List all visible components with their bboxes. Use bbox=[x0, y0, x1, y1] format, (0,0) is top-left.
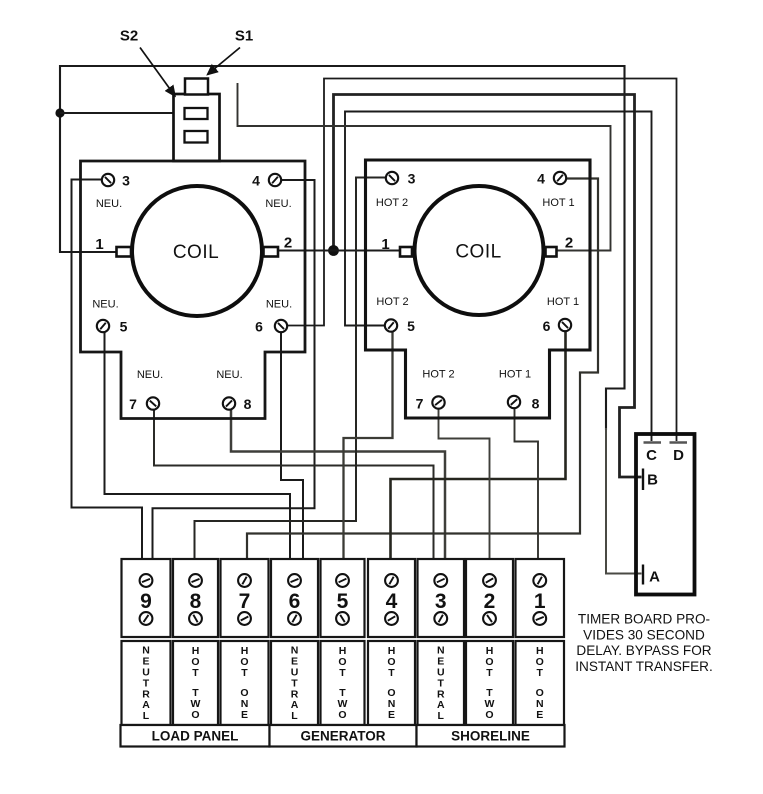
svg-text:L: L bbox=[438, 710, 445, 722]
svg-text:T: T bbox=[241, 667, 248, 679]
screw terminal block 6 bottom bbox=[288, 612, 301, 625]
label cell NEUTRAL (3) bbox=[418, 641, 465, 725]
wire left relay terminal 6 up to timer D terminal bbox=[288, 79, 677, 442]
relay K2 body outline bbox=[366, 160, 591, 418]
wire right relay T2 up and over to S1 switch stub bbox=[238, 83, 611, 251]
svg-text:O: O bbox=[338, 709, 346, 721]
wire left relay screw 4 to terminal block 9 bbox=[153, 180, 315, 560]
svg-text:HOT 1: HOT 1 bbox=[542, 197, 574, 209]
terminal block cell 3 bbox=[418, 559, 465, 637]
svg-text:O: O bbox=[191, 709, 199, 721]
screw terminal block 3 bottom bbox=[434, 612, 447, 625]
terminal block cell 5 bbox=[321, 559, 365, 637]
switch S2 body bbox=[174, 94, 220, 161]
svg-text:NEU.: NEU. bbox=[265, 198, 291, 210]
screw terminal block 9 bottom bbox=[140, 612, 153, 625]
relay K2 terminal 2 tab bbox=[546, 247, 557, 257]
svg-text:HOT 2: HOT 2 bbox=[376, 197, 408, 209]
svg-text:D: D bbox=[673, 447, 684, 464]
svg-text:COIL: COIL bbox=[173, 242, 219, 263]
wire left relay screw 3 to terminal block 9 bbox=[72, 180, 143, 561]
svg-text:6: 6 bbox=[289, 590, 301, 613]
group label LOAD PANEL bbox=[121, 725, 270, 747]
screw terminal block 7 top bbox=[238, 574, 251, 587]
relay K2 terminal 1 tab bbox=[400, 247, 412, 257]
timer terminal A tick bbox=[642, 565, 644, 585]
svg-text:1: 1 bbox=[534, 590, 546, 613]
screw terminal K1-4 bbox=[269, 174, 281, 186]
svg-text:4: 4 bbox=[537, 171, 545, 187]
svg-text:TIMER BOARD PRO-: TIMER BOARD PRO- bbox=[578, 612, 710, 627]
svg-text:1: 1 bbox=[381, 236, 389, 253]
svg-text:2: 2 bbox=[484, 590, 496, 613]
timer terminal C tick bbox=[644, 441, 662, 444]
screw terminal block 5 bottom bbox=[336, 612, 349, 625]
coil K1 circle bbox=[132, 186, 262, 316]
svg-text:INSTANT TRANSFER.: INSTANT TRANSFER. bbox=[575, 659, 712, 674]
group label GENERATOR bbox=[270, 725, 417, 747]
svg-text:8: 8 bbox=[244, 396, 252, 412]
label cell HOT TWO (8) bbox=[173, 641, 218, 725]
svg-text:T: T bbox=[339, 667, 346, 679]
svg-text:2: 2 bbox=[565, 235, 573, 252]
svg-text:L: L bbox=[143, 710, 150, 722]
svg-text:9: 9 bbox=[140, 590, 152, 613]
wire left rail to left relay terminal 1 bbox=[60, 251, 117, 253]
svg-text:8: 8 bbox=[532, 396, 540, 412]
svg-text:HOT 1: HOT 1 bbox=[547, 296, 579, 308]
svg-text:T: T bbox=[388, 667, 395, 679]
label cell HOT ONE (1) bbox=[516, 641, 565, 725]
relay K1 terminal 2 tab bbox=[264, 247, 279, 257]
label cell HOT ONE (7) bbox=[221, 641, 269, 725]
svg-text:VIDES 30 SECOND: VIDES 30 SECOND bbox=[583, 627, 705, 642]
node junction dot on coil interconnect bbox=[328, 245, 339, 256]
relay K1 terminal 1 tab bbox=[117, 247, 132, 257]
svg-text:NEU.: NEU. bbox=[96, 198, 122, 210]
wire right relay terminal 5 to timer C terminal bbox=[345, 112, 652, 442]
screw terminal block 4 top bbox=[385, 574, 398, 587]
svg-text:T: T bbox=[486, 667, 493, 679]
svg-text:E: E bbox=[536, 709, 543, 721]
terminal block cell 9 bbox=[122, 559, 171, 637]
terminal block cell 6 bbox=[271, 559, 318, 637]
timer terminal D tick bbox=[670, 441, 688, 444]
screw terminal K1-7 bbox=[147, 397, 159, 409]
screw terminal K2-3 bbox=[386, 172, 398, 184]
screw terminal K1-5 bbox=[97, 320, 109, 332]
svg-text:E: E bbox=[241, 709, 248, 721]
svg-text:HOT 1: HOT 1 bbox=[499, 369, 531, 381]
terminal block cell 2 bbox=[466, 559, 513, 637]
wire right relay screw 6 to terminal block 4 (thick) bbox=[391, 331, 566, 560]
svg-text:L: L bbox=[291, 710, 298, 722]
svg-text:NEU.: NEU. bbox=[266, 299, 292, 311]
svg-text:COIL: COIL bbox=[455, 242, 501, 263]
node junction on left rail feeding switch S2 bbox=[55, 108, 64, 117]
svg-text:7: 7 bbox=[239, 590, 251, 613]
svg-text:A: A bbox=[649, 569, 660, 586]
wire coil interconnect: left relay T2 to right relay T1 bbox=[278, 249, 401, 251]
screw terminal block 7 bottom bbox=[238, 612, 251, 625]
svg-text:1: 1 bbox=[95, 236, 103, 253]
screw terminal K2-4 bbox=[554, 172, 566, 184]
screw terminal block 5 top bbox=[336, 574, 349, 587]
screw terminal K2-5 bbox=[385, 319, 397, 331]
screw terminal K1-8 bbox=[223, 397, 235, 409]
wire supply top: S1/S2 feed from left rail to timer A via top run bbox=[60, 66, 625, 430]
svg-text:5: 5 bbox=[120, 319, 128, 335]
timer terminal B tick bbox=[642, 469, 644, 491]
screw terminal K2-8 bbox=[508, 396, 520, 408]
svg-text:HOT 2: HOT 2 bbox=[376, 296, 408, 308]
terminal block cell 1 bbox=[516, 559, 565, 637]
svg-text:6: 6 bbox=[543, 318, 551, 334]
label cell HOT ONE (4) bbox=[368, 641, 415, 725]
svg-text:3: 3 bbox=[435, 590, 447, 613]
pushbutton S1 bbox=[185, 79, 208, 95]
screw terminal K1-6 bbox=[275, 320, 287, 332]
svg-text:2: 2 bbox=[284, 235, 292, 252]
terminal block cell 7 bbox=[221, 559, 269, 637]
svg-text:S1: S1 bbox=[235, 28, 253, 45]
svg-text:5: 5 bbox=[407, 318, 415, 334]
screw terminal block 6 top bbox=[288, 574, 301, 587]
svg-text:GENERATOR: GENERATOR bbox=[300, 729, 385, 744]
svg-text:LOAD PANEL: LOAD PANEL bbox=[152, 729, 239, 744]
svg-text:SHORELINE: SHORELINE bbox=[451, 729, 530, 744]
arrow S1 pointer bbox=[208, 48, 241, 75]
label cell HOT TWO (5) bbox=[321, 641, 365, 725]
screw terminal block 9 top bbox=[140, 574, 153, 587]
wire left relay screw 7 to terminal block 3 bbox=[154, 410, 434, 561]
wire coil node to timer B terminal (thick) bbox=[334, 95, 642, 478]
wire left relay screw 8 to terminal block 3 (gray) bbox=[231, 410, 445, 561]
svg-text:7: 7 bbox=[416, 396, 424, 412]
label cell HOT TWO (2) bbox=[466, 641, 513, 725]
wire supply to timer A lower gray segment bbox=[606, 428, 642, 574]
timer board U1 bbox=[636, 434, 695, 595]
svg-text:NEU.: NEU. bbox=[92, 299, 118, 311]
svg-text:HOT 2: HOT 2 bbox=[422, 369, 454, 381]
wire left relay screw 6 to terminal block 6 bbox=[281, 332, 303, 560]
label cell NEUTRAL (9) bbox=[122, 641, 171, 725]
svg-text:O: O bbox=[485, 709, 493, 721]
svg-text:6: 6 bbox=[255, 319, 263, 335]
svg-text:C: C bbox=[646, 447, 657, 464]
screw terminal K1-3 bbox=[102, 174, 114, 186]
terminal block cell 4 bbox=[368, 559, 415, 637]
wire right relay screw 5 to terminal block 5 bbox=[344, 332, 393, 561]
group label SHORELINE bbox=[417, 725, 565, 747]
svg-text:B: B bbox=[647, 472, 658, 489]
screw terminal K2-7 bbox=[432, 396, 444, 408]
label cell NEUTRAL (6) bbox=[271, 641, 318, 725]
terminal block cell 8 bbox=[173, 559, 218, 637]
svg-text:NEU.: NEU. bbox=[216, 369, 242, 381]
switch S2 contact upper bbox=[185, 108, 208, 119]
wire left relay screw 5 to terminal block 6 bbox=[105, 332, 291, 560]
svg-text:4: 4 bbox=[386, 590, 398, 613]
svg-text:3: 3 bbox=[122, 173, 130, 189]
svg-text:7: 7 bbox=[129, 396, 137, 412]
screw terminal block 3 top bbox=[434, 574, 447, 587]
screw terminal block 1 bottom bbox=[533, 612, 546, 625]
wire right relay screw 7 to terminal block 2 bbox=[439, 409, 490, 561]
svg-text:DELAY. BYPASS FOR: DELAY. BYPASS FOR bbox=[576, 643, 711, 658]
screw terminal block 2 top bbox=[483, 574, 496, 587]
screw terminal block 2 bottom bbox=[483, 612, 496, 625]
screw terminal block 8 bottom bbox=[189, 612, 202, 625]
screw terminal K2-6 bbox=[559, 319, 571, 331]
svg-text:E: E bbox=[388, 709, 395, 721]
wire right relay screw 4 to terminal block 7 (long run) bbox=[247, 179, 598, 561]
screw terminal block 1 top bbox=[533, 574, 546, 587]
wire right relay screw 8 to terminal block 1 bbox=[515, 409, 539, 561]
switch S2 contact lower bbox=[185, 131, 208, 143]
wire right relay screw 3 to terminal block 8 bbox=[195, 178, 386, 561]
screw terminal block 4 bottom bbox=[385, 612, 398, 625]
svg-text:T: T bbox=[537, 667, 544, 679]
svg-text:3: 3 bbox=[408, 171, 416, 187]
screw terminal block 8 top bbox=[189, 574, 202, 587]
svg-text:8: 8 bbox=[190, 590, 202, 613]
svg-text:T: T bbox=[192, 667, 199, 679]
svg-text:5: 5 bbox=[337, 590, 349, 613]
relay K1 body outline bbox=[81, 161, 306, 419]
coil K2 circle bbox=[415, 186, 544, 315]
svg-text:4: 4 bbox=[252, 173, 260, 189]
svg-text:S2: S2 bbox=[120, 28, 138, 45]
svg-text:NEU.: NEU. bbox=[137, 369, 163, 381]
wire junction to S2 switch contact bbox=[60, 112, 185, 114]
